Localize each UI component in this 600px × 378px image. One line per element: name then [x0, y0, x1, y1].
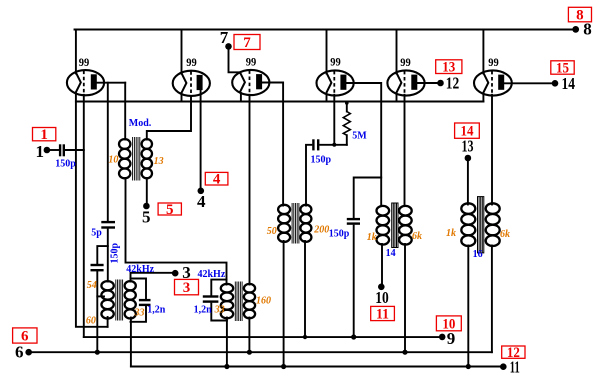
capacitor C2 5p	[101, 222, 115, 227]
svg-text:13: 13	[154, 156, 164, 167]
svg-text:12: 12	[507, 345, 520, 361]
svg-text:160: 160	[256, 295, 271, 306]
wire V5 filament bottom lead	[396, 93, 398, 102]
wire V3 grid lead down to T2 secondary top	[249, 95, 251, 285]
node terminal 9	[436, 316, 461, 348]
wire 5p to T1 primary top	[107, 230, 109, 282]
wire T2 secondary bottom to h2	[248, 318, 250, 353]
triode V1 type 99	[67, 70, 104, 95]
wire 150p to V1 grid	[65, 149, 84, 151]
capacitor C3 150p grid	[91, 265, 104, 270]
resistor 5M grid leak	[343, 112, 350, 136]
wire T1 primary bottom lead	[107, 317, 109, 327]
svg-text:7: 7	[243, 35, 251, 51]
node terminal 11	[500, 345, 525, 377]
wire T4 secondary bottom to h2	[404, 244, 406, 352]
wire terminal 13 to T5 primary top	[467, 161, 469, 205]
node terminal 6	[13, 328, 37, 362]
svg-text:11: 11	[376, 306, 389, 322]
capacitor C7 150p bypass	[347, 219, 360, 224]
triode V4 type 99	[317, 70, 354, 95]
wire 5M resistor top lead	[346, 102, 348, 112]
triode V5 type 99	[387, 70, 424, 95]
wire T1 secondary to 1.2n cap top	[131, 279, 147, 299]
wire Mod secondary bottom to terminal 5	[146, 178, 148, 203]
svg-text:5M: 5M	[352, 130, 367, 141]
triode V3 type 99	[232, 70, 269, 95]
svg-text:5: 5	[142, 207, 151, 226]
junction T3 primary on h3	[281, 364, 286, 369]
junction T5 primary on h3	[466, 364, 471, 369]
wire branch to 150p bypass cap	[354, 178, 382, 218]
svg-text:99: 99	[246, 55, 257, 69]
wire V4 grid lead down	[333, 95, 335, 145]
svg-text:99: 99	[186, 55, 197, 69]
wire 1.2n cap II top	[211, 280, 226, 295]
svg-text:1k: 1k	[446, 228, 456, 239]
svg-text:50: 50	[267, 226, 277, 237]
svg-text:10: 10	[375, 288, 389, 307]
wire V6 plate lead to terminal 14	[504, 82, 552, 84]
wire top HT rail	[75, 29, 576, 31]
node terminal 12	[436, 60, 462, 93]
wire V6 filament top lead	[482, 30, 484, 74]
junction T2 secondary on h2	[247, 350, 252, 355]
wire V3 plate lead down to T3 primary top	[262, 83, 283, 206]
svg-text:150p: 150p	[329, 228, 350, 239]
wire 5M resistor bottom lead	[346, 135, 348, 145]
node terminal 7	[220, 28, 260, 51]
svg-text:6: 6	[21, 328, 29, 344]
svg-text:4: 4	[213, 172, 221, 188]
svg-text:5p: 5p	[91, 227, 102, 238]
svg-text:16: 16	[473, 249, 483, 260]
wire V4 filament bottom lead	[326, 93, 328, 102]
triode V2 type 99	[173, 71, 210, 96]
wire V1 plate lead	[97, 82, 125, 84]
wire T3 secondary top to 150p	[306, 145, 311, 206]
svg-text:33: 33	[134, 307, 145, 318]
svg-text:4: 4	[197, 192, 206, 211]
wire T2 primary bottom to h3	[226, 318, 228, 367]
node terminal 3	[172, 263, 199, 296]
node terminal 13	[455, 123, 480, 161]
svg-text:8: 8	[576, 8, 584, 24]
svg-text:99: 99	[488, 55, 499, 69]
wire 150p bypass bottom to h1	[353, 226, 355, 337]
node terminal 1	[33, 127, 56, 161]
wire 1.2n cap bottom	[131, 307, 147, 322]
svg-text:10: 10	[442, 316, 455, 332]
wire V2 filament bottom lead	[181, 93, 183, 102]
wire terminal 1 coupling	[50, 149, 59, 151]
junction T3 secondary on h1	[303, 335, 307, 339]
node terminal 14	[551, 60, 576, 93]
svg-text:5: 5	[166, 202, 174, 218]
wire V1 filament top lead	[75, 30, 77, 74]
wire T4 primary bottom to terminal 10	[381, 244, 383, 284]
svg-text:1,2n: 1,2n	[194, 304, 213, 315]
svg-text:54: 54	[87, 280, 97, 291]
wire plate branch down to 5p line	[107, 83, 109, 221]
wire Mod primary bottom to T2 primary top	[126, 178, 227, 285]
svg-text:99: 99	[79, 55, 90, 69]
svg-text:Mod.: Mod.	[129, 118, 152, 129]
transformer T4 AF iron core	[377, 203, 412, 248]
capacitor C5 1.2n	[203, 297, 219, 302]
wire terminal 7 to V3 filament	[229, 49, 241, 72]
wire T1 secondary top to terminal 3	[131, 273, 173, 282]
svg-text:150p: 150p	[311, 154, 332, 165]
wire V6 grid lead down to T5 secondary top	[491, 95, 493, 205]
svg-text:33: 33	[214, 304, 225, 315]
wire V5 plate lead to terminal 12	[417, 82, 437, 84]
wire h3 line to terminal 11	[131, 366, 503, 368]
node terminal 4	[197, 172, 228, 211]
transformer T2 42kHz IF	[221, 282, 255, 322]
capacitor C1 150p terminal 1	[60, 144, 64, 156]
junction 150p branch on h2	[95, 350, 100, 355]
svg-text:42kHz: 42kHz	[126, 264, 154, 275]
wire T5 primary bottom to h3	[467, 246, 469, 367]
wire h2 up to T5 secondary bottom	[491, 246, 493, 353]
wire V1 grid lead down	[83, 95, 85, 337]
wire 150p right to grid junction and 5M	[320, 144, 347, 146]
transformer T5 output iron core	[461, 197, 499, 253]
wire V4 plate lead down to T4 primary top	[346, 83, 381, 206]
junction T4 secondary on h2	[402, 350, 407, 355]
wire V5 grid lead down to T4 secondary top	[404, 95, 406, 206]
svg-text:150p: 150p	[109, 243, 120, 264]
wire T1 secondary bottom to h3	[130, 318, 132, 367]
svg-text:10: 10	[108, 154, 118, 165]
svg-text:7: 7	[220, 28, 229, 47]
capacitor C4 1.2n	[139, 300, 151, 305]
transformer Mod.	[119, 137, 152, 181]
svg-text:1: 1	[40, 127, 48, 143]
svg-text:200: 200	[313, 225, 329, 236]
wire h1 AF/ground line to terminal 9	[84, 336, 442, 338]
wire V2 plate lead down to terminal 4	[200, 90, 202, 188]
svg-text:42kHz: 42kHz	[198, 269, 226, 280]
node terminal 8	[568, 7, 591, 38]
svg-text:6k: 6k	[500, 229, 510, 240]
wire V5 filament top lead	[396, 30, 398, 74]
triode V6 type 99	[474, 70, 512, 95]
svg-text:3: 3	[183, 280, 191, 296]
wire V2 filament top lead	[181, 30, 183, 74]
svg-text:60: 60	[86, 316, 96, 327]
wire T3 primary bottom to h3	[283, 241, 285, 367]
wire branch to 150p grid cap	[97, 246, 108, 263]
junction T2 primary on h3	[224, 364, 229, 369]
wire V6 filament bottom lead	[482, 93, 484, 102]
wire 1.2n cap II bottom	[211, 304, 227, 321]
svg-text:99: 99	[400, 55, 411, 69]
wire T1 primary tap	[97, 295, 104, 297]
svg-text:15: 15	[556, 60, 569, 76]
junction 150p bypass on h1	[351, 334, 356, 339]
wire V1 plate to Mod primary top	[124, 83, 126, 140]
capacitor C6 150p	[313, 139, 318, 150]
wire V1 filament bottom lead down to T1 bottom	[76, 93, 108, 327]
svg-text:12: 12	[446, 73, 460, 92]
wire V3 filament bottom lead	[240, 93, 242, 102]
wire h2 ground bus from terminal 6	[31, 351, 492, 353]
svg-text:14: 14	[386, 248, 396, 259]
svg-text:1: 1	[36, 142, 45, 161]
wire V4 filament top lead	[326, 30, 328, 74]
junction 5M top on filament bus	[345, 101, 349, 105]
node terminal 10	[371, 284, 395, 323]
wire filament bus	[76, 101, 484, 103]
junction V4 grid at 150p-5M node	[332, 143, 336, 147]
svg-text:6: 6	[15, 343, 24, 362]
transformer T3 RF	[278, 203, 311, 244]
svg-text:1,2n: 1,2n	[147, 304, 166, 315]
node terminal 5	[142, 202, 181, 226]
svg-text:13: 13	[442, 60, 455, 76]
svg-text:99: 99	[330, 55, 341, 69]
wire 150p cap bottom to tap and h2	[96, 272, 98, 352]
svg-text:150p: 150p	[55, 159, 76, 170]
wire T3 secondary bottom to h1	[304, 241, 306, 337]
svg-text:14: 14	[562, 74, 576, 93]
wire Mod secondary top to V2 grid	[147, 96, 191, 140]
transformer T1 42kHz IF	[101, 280, 135, 321]
svg-text:14: 14	[461, 124, 474, 140]
svg-text:1k: 1k	[367, 232, 377, 243]
svg-text:6k: 6k	[412, 231, 422, 242]
